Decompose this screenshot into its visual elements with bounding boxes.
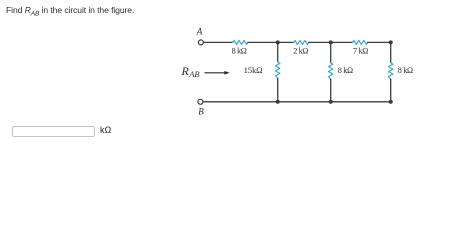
- svg-text:B: B: [198, 107, 204, 117]
- svg-text:A: A: [196, 27, 203, 37]
- resistor R4 15k (vertical zigzag): [276, 62, 280, 78]
- resistor R2 2k (horizontal zigzag): [294, 40, 309, 44]
- terminal A: [198, 40, 203, 45]
- unit label kOhm: [100, 125, 111, 135]
- terminal B: [198, 99, 203, 104]
- arrow for R_AB: [205, 71, 230, 75]
- value label 8 kOhm (R6): [398, 66, 413, 75]
- wire: R4 to bottom rail: [277, 78, 279, 101]
- label R_AB: [181, 64, 200, 79]
- problem statement text: [6, 5, 134, 18]
- wire: R3 to top-right corner: [368, 41, 391, 43]
- wire: A terminal to resistor R1: [204, 41, 233, 43]
- node B label: [198, 107, 204, 117]
- svg-text:R: R: [181, 64, 190, 78]
- svg-text:AB: AB: [188, 69, 199, 79]
- wire: R2 to node D: [309, 41, 353, 43]
- svg-text:2 kΩ: 2 kΩ: [293, 46, 308, 55]
- svg-text:8 kΩ: 8 kΩ: [232, 46, 247, 55]
- wire: R5 to bottom rail: [330, 79, 332, 102]
- wire: node C down to resistor R4: [277, 42, 279, 62]
- corner node F (bottom right): [389, 100, 393, 104]
- value label 2 kOhm (R2): [293, 46, 308, 55]
- svg-text:8 kΩ: 8 kΩ: [338, 66, 353, 75]
- svg-text:7 kΩ: 7 kΩ: [353, 46, 368, 55]
- junction node D: [329, 40, 333, 44]
- corner node E (top right): [389, 40, 393, 44]
- resistor R3 7k (horizontal zigzag): [353, 40, 368, 44]
- wire: R6 to bottom-right corner: [390, 79, 392, 102]
- junction node H (bottom of R5): [329, 100, 333, 104]
- junction node G (bottom of R4): [276, 100, 280, 104]
- answer input box: [12, 126, 95, 137]
- svg-text:8 kΩ: 8 kΩ: [398, 66, 413, 75]
- bottom rail wire: [203, 101, 391, 103]
- value label 7 kOhm (R3): [353, 46, 368, 55]
- resistor R6 8k (vertical zigzag): [389, 63, 393, 79]
- svg-text:15kΩ: 15kΩ: [244, 65, 263, 75]
- wire: R1 to node C: [248, 41, 294, 43]
- wire: top-right corner down to resistor R6: [390, 42, 392, 62]
- value label 8 kOhm (R5): [338, 66, 353, 75]
- resistor R5 8k (vertical zigzag): [329, 63, 333, 79]
- junction node C: [276, 40, 280, 44]
- circuit schematic: [0, 0, 474, 145]
- wire: node D down to resistor R5: [330, 42, 332, 62]
- value label 8 kOhm (R1): [232, 46, 247, 55]
- node A label: [196, 27, 203, 37]
- value label 15kOhm (R4): [244, 65, 263, 75]
- resistor R1 8k (horizontal zigzag): [233, 40, 248, 44]
